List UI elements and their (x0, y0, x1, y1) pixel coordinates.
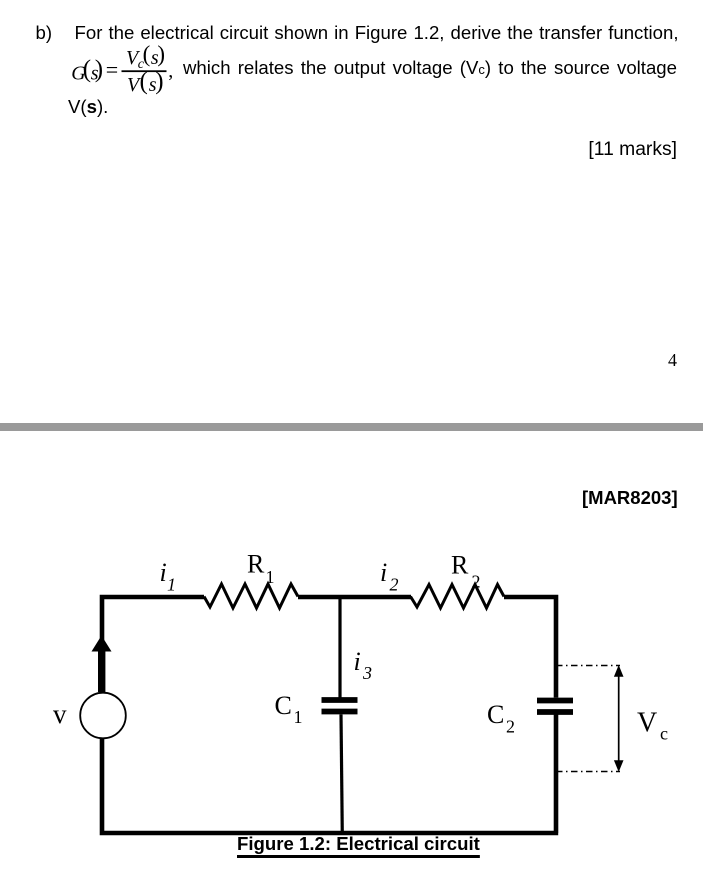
resistor R1 (204, 584, 298, 608)
svg-text:R: R (451, 551, 469, 580)
capacitor C2 top plate (537, 698, 573, 704)
question text line 3 (68, 98, 108, 116)
svg-text:R: R (247, 550, 265, 579)
svg-text:i: i (380, 558, 387, 587)
svg-text:1: 1 (294, 707, 303, 727)
capacitor C2 bottom plate (537, 709, 573, 715)
equation G(s)=Vc(s)/V(s) (0, 0, 200, 110)
wire source bottom to bottom-left corner (102, 739, 340, 834)
Vc measurement dashed line top (556, 665, 620, 667)
wire R1 to R2 (through node A) (298, 595, 411, 600)
page divider bar (0, 423, 703, 431)
resistor R2 (411, 585, 505, 609)
voltage source V circle (80, 693, 126, 739)
wire capacitor C1 down to bottom wire (341, 715, 342, 836)
marks (588, 141, 677, 159)
capacitor C1 top plate (322, 697, 358, 703)
question text line 1 (36, 24, 53, 42)
svg-text:2: 2 (506, 717, 515, 737)
svg-text:v: v (53, 699, 67, 729)
page number 4 (668, 351, 677, 369)
capacitor C1 bottom plate (322, 709, 358, 715)
svg-text:2: 2 (390, 575, 399, 595)
svg-text:C: C (487, 700, 504, 729)
Vc measurement dashed line bottom (556, 771, 620, 773)
svg-text:c: c (660, 724, 668, 744)
header MAR8203 (582, 489, 678, 507)
wire bottom-right segment (340, 715, 558, 834)
wire top-left segment (source to R1) (102, 597, 204, 692)
question text line 2 (183, 59, 677, 79)
svg-text:1: 1 (266, 567, 275, 587)
svg-text:V: V (637, 708, 657, 739)
svg-text:1: 1 (167, 575, 176, 595)
figure caption (237, 835, 480, 853)
Vc double-headed arrow (614, 665, 624, 772)
wire R2 to top-right corner (504, 597, 556, 698)
svg-text:2: 2 (472, 572, 481, 592)
svg-text:3: 3 (362, 663, 372, 683)
wire node A down to capacitor C1 (338, 597, 341, 698)
svg-text:i: i (160, 558, 167, 587)
current arrow for i1 on source branch (92, 636, 112, 693)
svg-text:C: C (275, 691, 292, 720)
svg-text:i: i (354, 647, 361, 676)
